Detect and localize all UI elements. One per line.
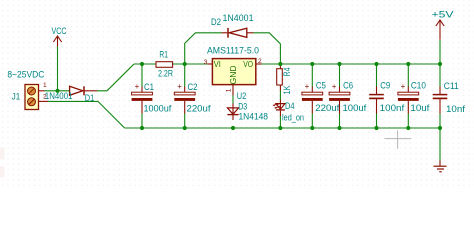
svg-text:+: + xyxy=(332,82,337,91)
capacitor C5 xyxy=(302,87,323,114)
svg-text:J1: J1 xyxy=(12,91,20,101)
svg-text:3: 3 xyxy=(204,59,208,66)
svg-text:C5: C5 xyxy=(316,80,326,90)
wire: R4 to D4 xyxy=(279,91,281,129)
junction node D2/R4 output rail xyxy=(278,62,282,66)
svg-text:C2: C2 xyxy=(188,82,198,92)
junction node C5 top xyxy=(310,62,314,66)
diode D1 xyxy=(70,86,97,95)
connector J1 xyxy=(25,85,48,110)
svg-text:1: 1 xyxy=(43,82,47,89)
svg-text:100uf: 100uf xyxy=(343,103,367,113)
junction node J1-pin1/VCC xyxy=(55,89,59,93)
svg-text:C9: C9 xyxy=(380,80,390,90)
wire: ground bus bottom rail xyxy=(125,127,440,129)
svg-text:D3: D3 xyxy=(238,102,247,112)
svg-text:1N4148: 1N4148 xyxy=(239,112,269,122)
junction node D3 bottom xyxy=(231,126,235,130)
svg-text:+: + xyxy=(135,82,140,91)
svg-text:VI: VI xyxy=(214,59,221,69)
junction node D4 bottom xyxy=(278,126,282,130)
svg-text:1: 1 xyxy=(226,88,233,92)
junction node C2 bottom xyxy=(183,126,187,130)
diode D3 xyxy=(227,104,238,121)
svg-text:1K: 1K xyxy=(282,85,292,94)
svg-text:C10: C10 xyxy=(411,80,426,90)
capacitor C11 xyxy=(433,87,448,114)
svg-text:R4: R4 xyxy=(282,67,292,76)
wire: input rail to R1 and regulator VI xyxy=(134,63,208,65)
svg-text:led_on: led_on xyxy=(282,113,304,123)
svg-text:VO: VO xyxy=(243,59,253,69)
svg-text:+: + xyxy=(305,82,310,91)
svg-text:+: + xyxy=(401,82,406,91)
power flag VCC xyxy=(53,36,61,47)
svg-text:C1: C1 xyxy=(144,82,154,92)
svg-text:+5V: +5V xyxy=(432,10,454,20)
capacitor C9 xyxy=(369,87,384,114)
svg-text:10uf: 10uf xyxy=(410,103,430,113)
svg-text:C6: C6 xyxy=(343,80,353,90)
svg-text:D2: D2 xyxy=(211,17,221,27)
wire: D2 bypass branch xyxy=(185,33,281,64)
capacitor C2 xyxy=(174,87,195,114)
svg-text:1N4001: 1N4001 xyxy=(223,13,254,23)
svg-text:D4: D4 xyxy=(285,101,295,111)
junction node C9 top xyxy=(374,62,378,66)
svg-text:220uf: 220uf xyxy=(187,103,212,113)
resistor R4 xyxy=(277,64,283,91)
svg-text:C11: C11 xyxy=(444,81,459,91)
junction node C5 bottom xyxy=(310,126,314,130)
sheet edge artifact left xyxy=(0,148,5,178)
origin crosshair marker xyxy=(385,130,412,148)
wire: C6 branch xyxy=(339,64,341,128)
wire: C2 branch xyxy=(184,64,186,128)
svg-text:2: 2 xyxy=(258,58,262,65)
svg-text:U2: U2 xyxy=(237,91,247,101)
wire: J1 pin2 row to ground bus diagonal xyxy=(48,101,125,128)
svg-text:8~25VDC: 8~25VDC xyxy=(7,69,45,79)
wire: D1 output diagonal up to input rail xyxy=(45,64,134,91)
wire: output rail VO to +5V corner xyxy=(262,63,441,65)
wire: C1 branch xyxy=(141,64,143,128)
resistor R1 xyxy=(156,62,173,68)
junction node C6 bottom xyxy=(337,126,341,130)
svg-text:+: + xyxy=(177,82,182,91)
capacitor C10 xyxy=(398,87,419,114)
capacitor C6 xyxy=(329,87,350,114)
wire: VCC riser xyxy=(57,47,59,91)
junction node C2/D2 top rail xyxy=(183,62,187,66)
power flag +5V xyxy=(436,20,444,40)
wire: +5V riser / C11 branch xyxy=(439,40,441,161)
junction node C6 top xyxy=(337,62,341,66)
svg-text:100nf: 100nf xyxy=(380,103,405,113)
junction node C1 top xyxy=(140,62,144,66)
svg-text:D1: D1 xyxy=(85,93,95,103)
svg-text:AMS1117-5.0: AMS1117-5.0 xyxy=(207,45,259,55)
wire: C5 branch xyxy=(311,64,313,128)
regulator U2 AMS1117-5.0 xyxy=(208,59,262,96)
svg-text:GND: GND xyxy=(228,66,238,85)
svg-text:2.2R: 2.2R xyxy=(158,69,173,79)
junction node C9 bottom xyxy=(374,126,378,130)
junction node C1 bottom xyxy=(140,126,144,130)
svg-text:220uf: 220uf xyxy=(315,103,340,113)
junction node +5V corner xyxy=(438,62,442,66)
junction node ground corner xyxy=(438,126,442,130)
wire: C9 branch xyxy=(376,64,378,128)
wire: GND pin to D3 xyxy=(232,96,234,104)
svg-text:10nf: 10nf xyxy=(446,104,466,114)
diode D2 xyxy=(222,28,254,38)
capacitor C1 xyxy=(132,87,153,114)
svg-text:VCC: VCC xyxy=(52,25,67,36)
ground symbol xyxy=(434,161,447,172)
svg-text:1000uf: 1000uf xyxy=(144,103,172,113)
wire: C10 branch xyxy=(407,64,409,128)
junction node C10 top xyxy=(406,62,410,66)
svg-text:R1: R1 xyxy=(159,49,168,59)
svg-text:1N4001: 1N4001 xyxy=(45,91,73,101)
LED D4 xyxy=(273,100,285,117)
junction node C10 bottom xyxy=(406,126,410,130)
